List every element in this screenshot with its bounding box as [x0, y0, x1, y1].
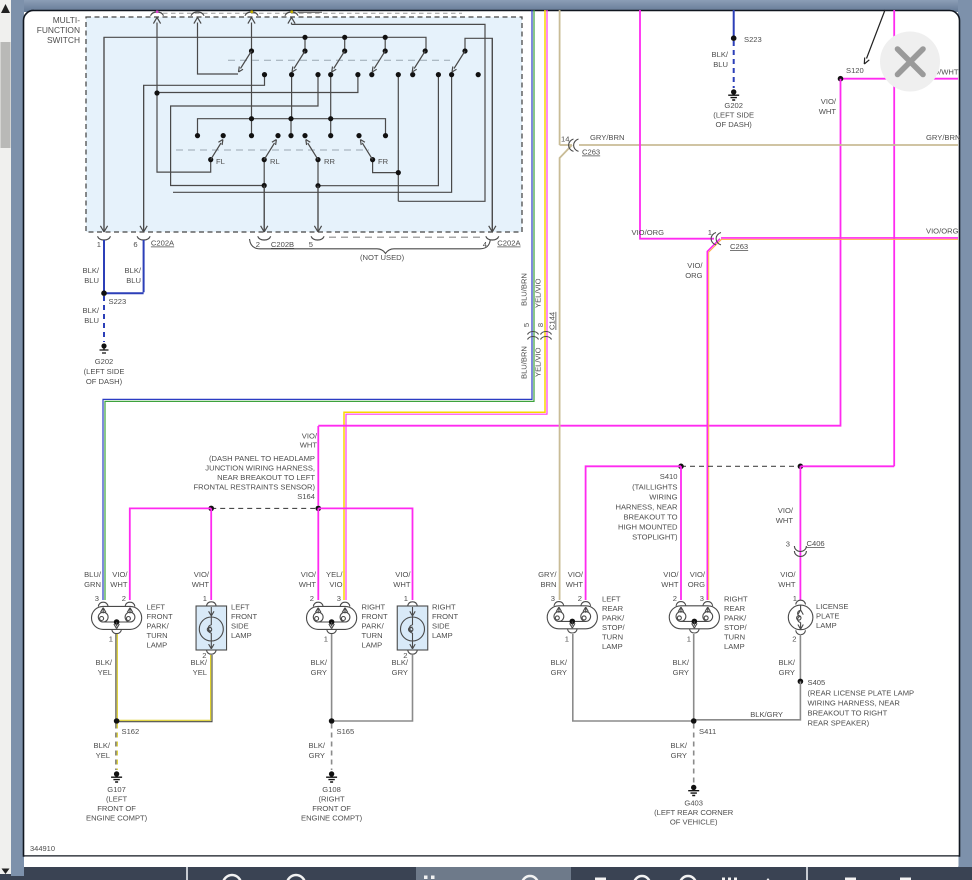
- svg-text:LAMP: LAMP: [231, 631, 252, 640]
- svg-text:VIO/: VIO/: [112, 570, 128, 579]
- svg-text:VIO/: VIO/: [194, 570, 210, 579]
- splice S165: [329, 718, 335, 724]
- ground G108: [326, 771, 337, 782]
- svg-text:1: 1: [404, 594, 408, 603]
- svg-text:2: 2: [673, 594, 677, 603]
- stub 251 lower: [251, 119, 253, 136]
- exit arrow 3 up: [248, 17, 255, 37]
- note S405 text block: [808, 689, 915, 728]
- svg-text:LAMP: LAMP: [602, 642, 623, 651]
- note S410 text block: [615, 472, 678, 542]
- wire VIO/WHT S410 right to x894 riser: [800, 465, 894, 467]
- splice S120: [838, 76, 844, 82]
- front pin labels row: [84, 570, 411, 589]
- svg-text:ORG: ORG: [688, 580, 705, 589]
- wire VIO/WHT S164 dot2 to right front park pin2: [317, 508, 319, 600]
- svg-text:WHT: WHT: [661, 580, 679, 589]
- bottom connector bumps: [98, 236, 499, 240]
- connector C144: [528, 331, 552, 339]
- scrollbar thumb: [1, 42, 11, 148]
- wire BLK/BLU pin1 down: [103, 240, 105, 293]
- svg-text:GRY: GRY: [551, 668, 567, 677]
- wire BLK/BLU dashed to G202 right: [733, 41, 735, 88]
- svg-text:FR: FR: [378, 157, 389, 166]
- svg-text:BLK/: BLK/: [311, 658, 328, 667]
- svg-text:REAR SPEAKER): REAR SPEAKER): [808, 719, 870, 728]
- stub to contact 344.7: [344, 37, 346, 51]
- svg-text:HARNESS, NEAR: HARNESS, NEAR: [615, 503, 678, 512]
- exit arrow 2 up: [194, 17, 238, 74]
- wire BLK/GRY dashed to G108: [331, 724, 333, 771]
- top pin bump A: [151, 12, 164, 16]
- svg-text:TURN: TURN: [724, 633, 745, 642]
- right blue-gray band: [958, 0, 972, 880]
- splice S405: [798, 679, 804, 685]
- svg-text:VIO/: VIO/: [568, 570, 584, 579]
- svg-text:YEL: YEL: [98, 668, 112, 677]
- svg-text:STOPLIGHT): STOPLIGHT): [632, 533, 678, 542]
- wire BLK/GRY right rear pin1 to S411: [693, 634, 695, 721]
- svg-text:FRONT: FRONT: [147, 612, 174, 621]
- svg-text:BLK/: BLK/: [712, 50, 729, 59]
- lamp right front side U4: [397, 602, 428, 654]
- wire BLK/YEL left park pin1 to S162: [115, 634, 117, 721]
- wire: arrow1 vertical to FL: [157, 94, 211, 172]
- svg-text:ENGINE COMPT): ENGINE COMPT): [301, 814, 363, 823]
- connector C263 pin14: [569, 139, 579, 151]
- lower switch blades FL RL (lean right) RR FR (lean left): [211, 140, 373, 160]
- svg-text:TURN: TURN: [147, 631, 168, 640]
- upper switch bank dashed line: [228, 59, 450, 61]
- wire VIO/WHT S164 dot2 to right front side pin1: [318, 508, 412, 600]
- wire: contact 398 to FR riser: [397, 75, 399, 202]
- svg-text:1: 1: [324, 635, 328, 644]
- svg-text:BLU: BLU: [84, 316, 99, 325]
- svg-text:C144: C144: [548, 312, 557, 330]
- svg-text:S120: S120: [846, 66, 864, 75]
- svg-text:BLU: BLU: [126, 276, 141, 285]
- svg-text:1: 1: [793, 594, 797, 603]
- top pin bump D: [285, 12, 298, 16]
- svg-text:LEFT: LEFT: [231, 603, 250, 612]
- top connector bumps and exit arrows: [151, 12, 463, 16]
- svg-text:VIO/: VIO/: [395, 570, 411, 579]
- note DASH PANEL text block: [193, 454, 315, 501]
- svg-text:S223: S223: [744, 35, 762, 44]
- svg-text:PLATE: PLATE: [816, 612, 840, 621]
- svg-text:3: 3: [786, 540, 790, 549]
- splice S410 dashed link: [681, 465, 800, 467]
- lamp right front park/turn U3: [307, 602, 357, 633]
- ground G202 left: [84, 343, 125, 386]
- wire VIO/ORG from C263 to page right: [721, 237, 958, 239]
- svg-text:GRY: GRY: [309, 751, 325, 760]
- svg-text:YEL: YEL: [193, 668, 207, 677]
- svg-text:STOP/: STOP/: [602, 623, 626, 632]
- svg-text:VIO/ORG: VIO/ORG: [632, 228, 665, 237]
- wire VIO/WHT S164 to left front park pin2: [130, 508, 211, 600]
- svg-text:VIO/: VIO/: [780, 570, 796, 579]
- svg-text:LAMP: LAMP: [362, 641, 383, 650]
- svg-text:WHT: WHT: [299, 580, 317, 589]
- switch labels: [216, 157, 389, 166]
- splice S164 dashed link: [211, 507, 318, 509]
- scrollbar bottom stub: [0, 867, 11, 874]
- stub 291 lower: [290, 119, 292, 136]
- wire BLK/GRY license pin2 to S405: [799, 634, 801, 681]
- svg-text:RL: RL: [270, 157, 280, 166]
- svg-text:GRY: GRY: [392, 668, 408, 677]
- svg-text:BLU/BRN: BLU/BRN: [520, 346, 529, 379]
- wire: RL pivot to pin2: [263, 161, 265, 231]
- connector dashed line above box: [163, 12, 462, 14]
- svg-text:(LEFT: (LEFT: [106, 795, 127, 804]
- lamp left rear park/stop/turn U5: [547, 602, 597, 633]
- exit arrow 4 up: [288, 17, 295, 24]
- wire BLU/GRN from top right around to left front park lamp pin 3: [103, 10, 534, 600]
- colored wire stubs above page edge: [156, 11, 158, 14]
- switch box internal wiring: [104, 24, 492, 231]
- svg-text:ENGINE COMPT): ENGINE COMPT): [86, 814, 148, 823]
- svg-text:GRY: GRY: [311, 668, 327, 677]
- svg-text:YEL/: YEL/: [326, 570, 343, 579]
- wire: main upper bus y37: [104, 37, 426, 231]
- svg-text:FRONT: FRONT: [432, 612, 459, 621]
- stub wire above box at bump D: [298, 11, 323, 13]
- svg-text:8: 8: [536, 323, 545, 327]
- svg-text:MULTI-: MULTI-: [53, 15, 81, 25]
- svg-text:OF DASH): OF DASH): [86, 377, 123, 386]
- svg-text:C263: C263: [582, 148, 600, 157]
- connector C263 pin1: [711, 233, 721, 245]
- svg-text:G202: G202: [95, 357, 114, 366]
- svg-text:BREAKOUT TO RIGHT: BREAKOUT TO RIGHT: [808, 709, 888, 718]
- wire VIO/WHT S164 dot1 to left front side pin1: [210, 508, 212, 600]
- label VIO/WHT above S164: [300, 432, 318, 450]
- svg-text:VIO/: VIO/: [690, 570, 706, 579]
- svg-text:REAR: REAR: [602, 604, 624, 613]
- svg-text:SIDE: SIDE: [231, 622, 249, 631]
- svg-text:PARK/: PARK/: [147, 622, 170, 631]
- wire: arrow4 across top to right side: [292, 24, 486, 201]
- svg-text:3: 3: [551, 594, 555, 603]
- wire VIO/WHT S120 horizontal: [841, 78, 959, 80]
- stub to contact 251: [251, 37, 253, 118]
- svg-text:VIO/: VIO/: [821, 97, 837, 106]
- svg-text:GRY/BRN: GRY/BRN: [926, 133, 960, 142]
- svg-text:C202A: C202A: [151, 239, 175, 248]
- svg-text:RIGHT: RIGHT: [432, 603, 456, 612]
- wire BLK/BLU pin6 down and over: [104, 240, 144, 293]
- bottom pin numbers and connector names: [97, 239, 522, 250]
- svg-text:FRONT: FRONT: [231, 612, 258, 621]
- svg-text:1: 1: [109, 635, 113, 644]
- svg-text:S162: S162: [122, 727, 140, 736]
- svg-text:S405: S405: [808, 678, 826, 687]
- svg-text:GRY: GRY: [779, 668, 795, 677]
- svg-text:JUNCTION WIRING HARNESS,: JUNCTION WIRING HARNESS,: [205, 464, 315, 473]
- wire BLK/GRY S405 down and left to S411: [694, 681, 801, 719]
- label VIO/WHT above C406: [776, 506, 794, 525]
- lamp left front side U2: [196, 602, 227, 654]
- lower switch bank dashed line: [176, 149, 369, 151]
- svg-text:LEFT: LEFT: [602, 595, 621, 604]
- svg-text:1: 1: [687, 635, 691, 644]
- svg-text:VIO: VIO: [329, 580, 342, 589]
- svg-text:S223: S223: [109, 297, 127, 306]
- svg-text:WIRING: WIRING: [649, 493, 677, 502]
- wire: contact 465 to pin4 drop: [465, 38, 492, 231]
- svg-text:(LEFT SIDE: (LEFT SIDE: [84, 367, 125, 376]
- svg-text:(DASH PANEL TO HEADLAMP: (DASH PANEL TO HEADLAMP: [209, 454, 315, 463]
- svg-text:FUNCTION: FUNCTION: [37, 25, 80, 35]
- svg-text:S164: S164: [297, 492, 315, 501]
- svg-text:BLK/: BLK/: [125, 266, 142, 275]
- wire BLK/GRY S165 to right side lamp pin2: [332, 655, 413, 721]
- svg-text:BLK/GRY: BLK/GRY: [750, 710, 783, 719]
- svg-text:BLU: BLU: [84, 276, 99, 285]
- wire VIO/WHT S120 down and long left run: [318, 79, 840, 426]
- svg-text:OF VEHICLE): OF VEHICLE): [670, 818, 718, 827]
- svg-text:NEAR BREAKOUT TO LEFT: NEAR BREAKOUT TO LEFT: [217, 473, 315, 482]
- svg-text:(NOT USED): (NOT USED): [360, 253, 405, 262]
- svg-text:RR: RR: [324, 157, 335, 166]
- upper switch contacts dots: [154, 35, 480, 189]
- wire GRY/BRN jog down to left rear lamp pin3: [560, 145, 572, 600]
- svg-text:BLK/: BLK/: [673, 658, 690, 667]
- svg-text:BLK/: BLK/: [392, 658, 409, 667]
- svg-text:1: 1: [97, 240, 101, 249]
- svg-text:2: 2: [256, 240, 260, 249]
- lamp left front park/turn U1: [92, 602, 142, 633]
- top blue-gray band: [0, 0, 972, 12]
- wire GRY/BRN horizontal to page right: [560, 144, 958, 146]
- svg-text:PARK/: PARK/: [602, 614, 625, 623]
- svg-text:FRONT OF: FRONT OF: [97, 804, 136, 813]
- svg-text:BREAKOUT TO: BREAKOUT TO: [623, 513, 677, 522]
- svg-text:VIO/: VIO/: [663, 570, 679, 579]
- svg-text:VIO/: VIO/: [778, 506, 794, 515]
- svg-text:VIO/: VIO/: [687, 261, 703, 270]
- svg-text:BLU/: BLU/: [84, 570, 102, 579]
- left scrollbar: [0, 0, 11, 876]
- svg-text:TURN: TURN: [362, 631, 383, 640]
- wire VIO/WHT S164 feed: [317, 426, 319, 506]
- wire BLK/GRY right park pin1 to S165: [331, 634, 333, 721]
- svg-text:GRY/BRN: GRY/BRN: [590, 133, 624, 142]
- wire: FR pivot jog: [373, 161, 399, 173]
- svg-text:TURN: TURN: [602, 633, 623, 642]
- svg-text:WHT: WHT: [566, 580, 584, 589]
- svg-text:LICENSE: LICENSE: [816, 602, 849, 611]
- svg-text:BLK/: BLK/: [83, 266, 100, 275]
- svg-text:VIO/ORG: VIO/ORG: [926, 227, 959, 236]
- svg-text:BLU: BLU: [713, 60, 728, 69]
- svg-text:5: 5: [309, 240, 313, 249]
- svg-text:WHT: WHT: [192, 580, 210, 589]
- svg-text:C406: C406: [807, 539, 825, 548]
- wire: RR pivot to pin5: [317, 161, 319, 231]
- wire BLK/GRY dashed S411 to G403: [693, 724, 695, 784]
- wire BLK/BLU top right from page top: [733, 10, 735, 38]
- svg-text:ORG: ORG: [685, 271, 702, 280]
- wire VIO/ORG jog down to right rear lamp pin3: [707, 239, 720, 600]
- svg-text:BLK/: BLK/: [83, 306, 100, 315]
- svg-text:S411: S411: [699, 727, 716, 736]
- svg-text:VIO/: VIO/: [301, 570, 317, 579]
- svg-text:5: 5: [522, 323, 531, 327]
- svg-text:2: 2: [310, 594, 314, 603]
- wire BLK/GRY left rear pin1 to S411: [573, 634, 694, 721]
- wire: contact 358 to arrow1 junction: [157, 75, 358, 93]
- svg-text:(LEFT SIDE: (LEFT SIDE: [713, 111, 754, 120]
- svg-text:STOP/: STOP/: [724, 623, 748, 632]
- svg-text:RIGHT: RIGHT: [362, 603, 386, 612]
- svg-text:FRONT OF: FRONT OF: [312, 804, 351, 813]
- wire: contact 264.5 to pin6: [144, 75, 265, 231]
- svg-text:BLK/: BLK/: [779, 658, 796, 667]
- svg-text:(REAR LICENSE PLATE LAMP: (REAR LICENSE PLATE LAMP: [808, 689, 915, 698]
- svg-text:WHT: WHT: [776, 516, 794, 525]
- close button X: [880, 32, 940, 92]
- svg-text:G403: G403: [684, 799, 703, 808]
- svg-text:LEFT: LEFT: [147, 603, 166, 612]
- svg-text:1: 1: [708, 228, 712, 237]
- svg-text:S410: S410: [660, 472, 678, 481]
- (NOT USED) brace: [250, 239, 491, 254]
- wire VIO/WHT right vertical from page top to S410: [893, 10, 895, 466]
- svg-text:BLK/: BLK/: [191, 658, 208, 667]
- svg-text:BLU/BRN: BLU/BRN: [520, 273, 529, 306]
- svg-text:BLK/: BLK/: [671, 741, 688, 750]
- wire: lower bank bus: [198, 119, 386, 136]
- svg-text:2: 2: [578, 594, 582, 603]
- svg-text:GRY/: GRY/: [538, 570, 557, 579]
- wire BLK/BLU dashed to ground: [103, 296, 105, 342]
- svg-text:G107: G107: [107, 785, 126, 794]
- svg-text:WIRING HARNESS, NEAR: WIRING HARNESS, NEAR: [808, 699, 901, 708]
- connector C406 pin3: [794, 546, 806, 557]
- top pin bump C: [245, 12, 258, 16]
- wire GRY/BRN from page top down to C263: [559, 10, 561, 145]
- bottom toolbar: [0, 867, 972, 880]
- svg-text:LAMP: LAMP: [432, 631, 453, 640]
- svg-text:G202: G202: [724, 101, 743, 110]
- stub to contact 385.2: [384, 37, 386, 51]
- scrollbar up arrow: [1, 4, 10, 13]
- wire VIO/WHT S410 left to left rear pin2: [586, 466, 681, 600]
- bottom exit arrows: [100, 37, 496, 232]
- svg-text:OF DASH): OF DASH): [716, 120, 753, 129]
- ground G403: [688, 785, 699, 796]
- wire VIO/WHT S410 left down to right rear pin2: [680, 466, 682, 600]
- svg-text:YEL: YEL: [96, 751, 110, 760]
- wire: contact 451 long left run: [173, 75, 452, 193]
- svg-text:G108: G108: [322, 785, 341, 794]
- svg-text:GRY: GRY: [671, 751, 687, 760]
- svg-text:WHT: WHT: [110, 580, 128, 589]
- svg-text:REAR: REAR: [724, 604, 746, 613]
- svg-text:3: 3: [95, 594, 99, 603]
- svg-text:BLK/: BLK/: [309, 741, 326, 750]
- svg-text:SIDE: SIDE: [432, 622, 450, 631]
- upper switch blades with arrows: [239, 51, 466, 72]
- svg-text:WHT: WHT: [819, 107, 837, 116]
- splice S223 (right): [731, 35, 737, 41]
- rear pin labels row: [538, 570, 796, 589]
- stub to contact 305: [304, 37, 306, 51]
- svg-text:BLK/: BLK/: [96, 658, 113, 667]
- svg-text:LAMP: LAMP: [147, 641, 168, 650]
- svg-text:WHT: WHT: [393, 580, 411, 589]
- wire VIO/ORG from page top down then right: [640, 10, 714, 239]
- svg-text:S165: S165: [337, 727, 355, 736]
- splice S411: [691, 718, 697, 724]
- wire: contact 330.7 through bus: [330, 75, 332, 136]
- svg-text:2: 2: [792, 635, 796, 644]
- svg-text:(TAILLIGHTS: (TAILLIGHTS: [632, 483, 677, 492]
- svg-text:LAMP: LAMP: [816, 621, 837, 630]
- svg-text:C202A: C202A: [497, 239, 521, 248]
- ground G107: [111, 771, 122, 782]
- svg-text:SWITCH: SWITCH: [47, 35, 80, 45]
- svg-text:YEL/VIO: YEL/VIO: [534, 278, 543, 308]
- wire VIO/WHT S410 right down through C406 to license lamp pin1: [799, 466, 801, 600]
- svg-text:3: 3: [700, 594, 704, 603]
- exit arrow 1 up: [153, 17, 295, 94]
- svg-text:FL: FL: [216, 157, 225, 166]
- top pin bump B: [191, 12, 204, 16]
- cursor annotation arrow: [864, 10, 885, 64]
- svg-text:BLK/: BLK/: [94, 741, 111, 750]
- svg-text:C263: C263: [730, 242, 748, 251]
- svg-text:2: 2: [122, 594, 126, 603]
- svg-text:YEL/VIO: YEL/VIO: [534, 347, 543, 377]
- wire: contact 318 to x170 drop: [171, 75, 318, 186]
- svg-text:BLK/: BLK/: [551, 658, 568, 667]
- svg-text:6: 6: [133, 240, 137, 249]
- svg-text:1: 1: [203, 594, 207, 603]
- splice S162: [114, 718, 120, 724]
- svg-text:(LEFT REAR CORNER: (LEFT REAR CORNER: [654, 808, 734, 817]
- svg-text:WHT: WHT: [300, 441, 318, 450]
- svg-text:VIO/: VIO/: [302, 432, 318, 441]
- svg-text:GRY: GRY: [673, 668, 689, 677]
- wire BLK/YEL S162 to left side lamp pin2: [116, 655, 212, 722]
- svg-text:FRONT: FRONT: [362, 612, 389, 621]
- label BLK/BLU left: [83, 266, 142, 285]
- left blue-gray band: [11, 0, 24, 876]
- wire: contact 291.6 down to lower bus: [291, 75, 293, 119]
- svg-text:PARK/: PARK/: [362, 622, 385, 631]
- svg-text:RIGHT: RIGHT: [724, 595, 748, 604]
- wire YEL/VIO from top to right front park lamp pin 3: [344, 10, 547, 600]
- svg-text:14: 14: [561, 135, 569, 144]
- ground G202 right: [728, 89, 739, 100]
- svg-text:3: 3: [337, 594, 341, 603]
- svg-text:FRONTAL RESTRAINTS SENSOR): FRONTAL RESTRAINTS SENSOR): [193, 483, 315, 492]
- svg-text:GRN: GRN: [84, 580, 101, 589]
- svg-text:1: 1: [565, 635, 569, 644]
- svg-text:PARK/: PARK/: [724, 614, 747, 623]
- lamp right rear park/stop/turn U6: [669, 602, 719, 633]
- wire: contact 438 to RR: [318, 75, 438, 186]
- svg-text:HIGH MOUNTED: HIGH MOUNTED: [618, 523, 678, 532]
- svg-text:BRN: BRN: [540, 580, 556, 589]
- label MULTI-FUNCTION SWITCH: [37, 15, 80, 45]
- lamp license plate U7: [788, 600, 813, 634]
- svg-text:344910: 344910: [30, 844, 55, 853]
